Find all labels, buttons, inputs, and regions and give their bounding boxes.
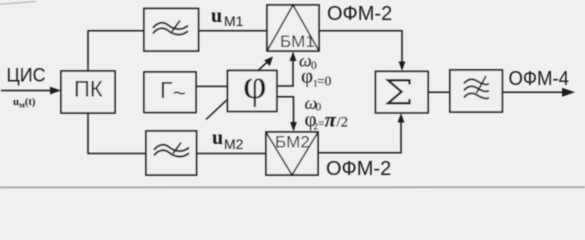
generator Г~ <box>144 72 196 113</box>
wire φ upper output to БМ1 <box>277 52 297 87</box>
svg-text:uм(t): uм(t) <box>13 96 36 110</box>
svg-text:ЦИС: ЦИС <box>7 65 46 87</box>
wire ПК top to filter1 <box>88 31 144 71</box>
svg-text:φ: φ <box>301 64 313 88</box>
balanced modulator БМ1 <box>267 5 319 51</box>
svg-text:/2: /2 <box>337 115 349 131</box>
svg-text:u: u <box>211 5 222 27</box>
wire input arrow to ПК <box>1 87 61 95</box>
svg-text:φ: φ <box>243 61 267 107</box>
svg-text:ОФМ-2: ОФМ-2 <box>327 3 392 25</box>
scan artifact top-left line <box>0 1 36 4</box>
svg-text:π: π <box>325 108 337 132</box>
wire Σ to output filter <box>428 91 450 93</box>
svg-text:ПК: ПК <box>74 77 103 102</box>
block ПК <box>61 71 115 113</box>
wire ПК bottom to filter2 <box>88 113 146 154</box>
wire φ lower output to БМ2 <box>277 97 297 132</box>
svg-text:ОФМ-2: ОФМ-2 <box>326 158 391 180</box>
svg-text:БМ1: БМ1 <box>280 32 315 51</box>
svg-text:М1: М1 <box>224 13 244 29</box>
wire filter2 to БМ2, node u_M2 <box>197 153 267 155</box>
phase shifter φ <box>228 61 277 111</box>
svg-text:u: u <box>212 127 223 149</box>
wire diagonal arrow to БМ1 (passes under φ) <box>206 57 273 120</box>
wire БМ2 to Σ (ОФМ-2 bottom) <box>318 113 404 153</box>
filter F3 (output band-pass) <box>450 70 502 112</box>
wire Г~ to φ <box>196 85 228 87</box>
summer Σ <box>376 71 429 112</box>
filter F1 (top low-pass) <box>144 9 199 52</box>
scan artifact bottom line <box>0 186 585 188</box>
filter F2 (bottom low-pass) <box>146 131 197 175</box>
wire filter1 to БМ1, node u_M1 <box>199 30 268 32</box>
svg-text:ОФМ-4: ОФМ-4 <box>509 68 570 90</box>
balanced modulator БМ2 <box>266 132 318 175</box>
wire output arrow ОФМ-4 <box>502 88 575 97</box>
wire БМ1 to Σ (ОФМ-2 top) <box>319 31 405 71</box>
svg-text:М2: М2 <box>224 136 244 152</box>
svg-text:=0: =0 <box>317 74 332 89</box>
svg-text:БМ2: БМ2 <box>275 133 310 152</box>
svg-text:Г~: Г~ <box>160 77 186 106</box>
